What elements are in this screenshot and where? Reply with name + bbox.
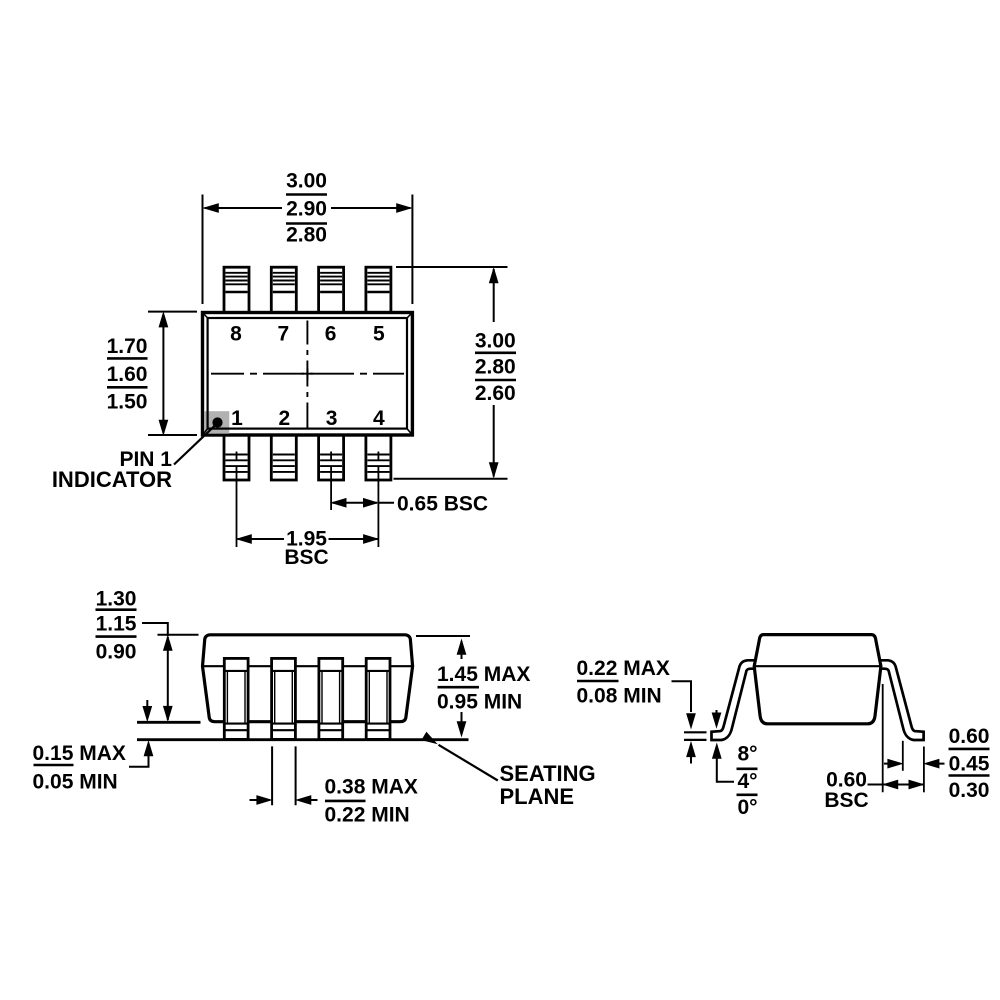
angle dimension arrows — [716, 710, 718, 713]
svg-text:8: 8 — [230, 323, 242, 346]
pin 6 lead — [319, 267, 344, 313]
pin 4 lead — [366, 435, 391, 480]
fraction line — [475, 351, 516, 354]
pin 3 centerline — [330, 452, 332, 511]
pin 1 indicator square — [204, 411, 229, 434]
svg-text:2.90: 2.90 — [286, 197, 327, 220]
fraction line — [107, 357, 148, 360]
top extension line — [158, 634, 199, 636]
svg-text:0.60: 0.60 — [949, 725, 990, 748]
right gull-wing lead — [876, 660, 924, 740]
arrows — [250, 799, 318, 801]
dimension line with arrows — [167, 637, 169, 720]
standoff parallel lines — [684, 732, 707, 740]
svg-text:0.15 MAX: 0.15 MAX — [33, 742, 126, 765]
dimension 0.45 arrows — [884, 763, 945, 765]
dimension 0.65 BSC — [333, 502, 395, 504]
svg-text:0.95 MIN: 0.95 MIN — [437, 690, 522, 713]
fraction line — [286, 222, 327, 225]
body bottom reference line — [137, 721, 201, 724]
svg-text:1.70: 1.70 — [107, 335, 148, 358]
dimension 3.00/2.80/2.60 right: dimension line — [493, 269, 495, 477]
svg-text:2.60: 2.60 — [475, 382, 516, 405]
svg-text:3.00: 3.00 — [286, 169, 327, 192]
svg-text:1.15: 1.15 — [96, 613, 137, 636]
svg-text:1.60: 1.60 — [107, 363, 148, 386]
dimension 3.00/2.90/2.80: dimension line — [205, 207, 411, 209]
svg-text:1.45 MAX: 1.45 MAX — [437, 663, 530, 686]
vertical center line (dash-dot) — [306, 321, 308, 428]
pin 1 indicator dot — [212, 417, 222, 427]
svg-text:2.80: 2.80 — [475, 356, 516, 379]
up arrow — [690, 756, 692, 764]
package body outer outline — [203, 313, 413, 436]
end view texts — [577, 657, 990, 819]
svg-text:0.08 MIN: 0.08 MIN — [577, 685, 662, 708]
svg-text:5: 5 — [373, 323, 385, 346]
dimension 0.38/0.22: extension lines — [272, 746, 296, 805]
side lead 2 — [272, 658, 296, 739]
dimension 1.70/1.60/1.50: dimension line — [162, 315, 164, 434]
svg-text:2: 2 — [278, 407, 290, 430]
dimension 0.60 BSC line with arrows — [868, 784, 924, 786]
svg-text:0°: 0° — [737, 796, 757, 819]
dimension 1.95 BSC — [238, 538, 378, 540]
svg-text:4: 4 — [373, 407, 385, 430]
pin 1 centerline — [236, 452, 238, 548]
side view package body — [203, 635, 413, 722]
dimension 3.00/2.90/2.80: extension lines — [203, 195, 413, 305]
svg-text:0.22 MIN: 0.22 MIN — [325, 804, 410, 827]
pin 4 centerline — [377, 452, 379, 548]
dimension 0.15/0.05: up arrow and connector — [129, 756, 149, 767]
pin 1 lead (bottom row leftmost) — [224, 435, 249, 480]
svg-text:1: 1 — [231, 407, 243, 430]
side lead 4 — [366, 658, 390, 739]
dimension 0.22/0.08 connector — [672, 681, 692, 712]
svg-text:BSC: BSC — [824, 789, 868, 812]
end view package body — [754, 635, 881, 724]
svg-text:1.50: 1.50 — [107, 390, 148, 413]
svg-text:8°: 8° — [737, 743, 757, 766]
svg-text:2.80: 2.80 — [286, 224, 327, 247]
dimension 1.45 MAX/0.95 MIN: extension line — [416, 635, 470, 637]
svg-text:1.30: 1.30 — [96, 588, 137, 611]
svg-text:7: 7 — [277, 323, 289, 346]
svg-text:0.65 BSC: 0.65 BSC — [397, 492, 488, 515]
top view texts — [52, 169, 516, 569]
package body inner outline — [208, 318, 407, 429]
svg-text:0.05 MIN: 0.05 MIN — [33, 770, 118, 793]
side lead 1 — [224, 658, 248, 739]
svg-text:0.22 MAX: 0.22 MAX — [577, 657, 670, 680]
seating plane leader — [439, 745, 498, 781]
fraction line — [475, 379, 516, 382]
svg-text:4°: 4° — [737, 770, 757, 793]
dimension 1.30/1.15/0.90 connector — [142, 623, 168, 636]
svg-text:3: 3 — [326, 407, 338, 430]
pin 7 lead — [271, 267, 296, 313]
svg-text:PLANE: PLANE — [500, 784, 575, 809]
svg-text:0.38 MAX: 0.38 MAX — [325, 776, 418, 799]
dimension 3.00/2.80/2.60 right: extension lines — [394, 267, 508, 479]
fraction line — [107, 386, 148, 389]
side lead 3 — [319, 658, 343, 739]
center cross — [301, 368, 313, 380]
dimension 1.70/1.60/1.50: extension lines — [148, 312, 197, 435]
svg-text:6: 6 — [325, 323, 337, 346]
svg-text:0.45: 0.45 — [949, 753, 990, 776]
side view texts — [33, 588, 596, 827]
extension line b — [902, 741, 904, 771]
dimension line with arrows — [461, 641, 463, 735]
left gull-wing lead — [712, 660, 760, 740]
pin 8 lead (top row leftmost) — [224, 267, 249, 313]
pin 2 lead — [271, 435, 296, 480]
body corner chamfers — [203, 313, 413, 436]
extension line a — [882, 684, 884, 792]
svg-text:3.00: 3.00 — [475, 330, 516, 353]
horizontal center line (dash-dot) — [211, 373, 404, 375]
dimension 0.15/0.05: down arrow — [146, 700, 148, 706]
svg-text:0.90: 0.90 — [96, 640, 137, 663]
pin 5 lead — [366, 267, 391, 313]
svg-text:SEATING: SEATING — [500, 761, 596, 786]
pin 3 lead — [319, 435, 344, 480]
svg-text:INDICATOR: INDICATOR — [52, 467, 172, 492]
fraction line — [286, 193, 327, 196]
extension line c — [923, 747, 925, 793]
svg-text:BSC: BSC — [284, 546, 328, 569]
pin 1 indicator leader line — [174, 426, 215, 465]
svg-text:0.30: 0.30 — [949, 779, 990, 802]
seating plane line — [137, 738, 469, 741]
body parting line — [203, 665, 413, 667]
body parting line — [754, 665, 881, 667]
